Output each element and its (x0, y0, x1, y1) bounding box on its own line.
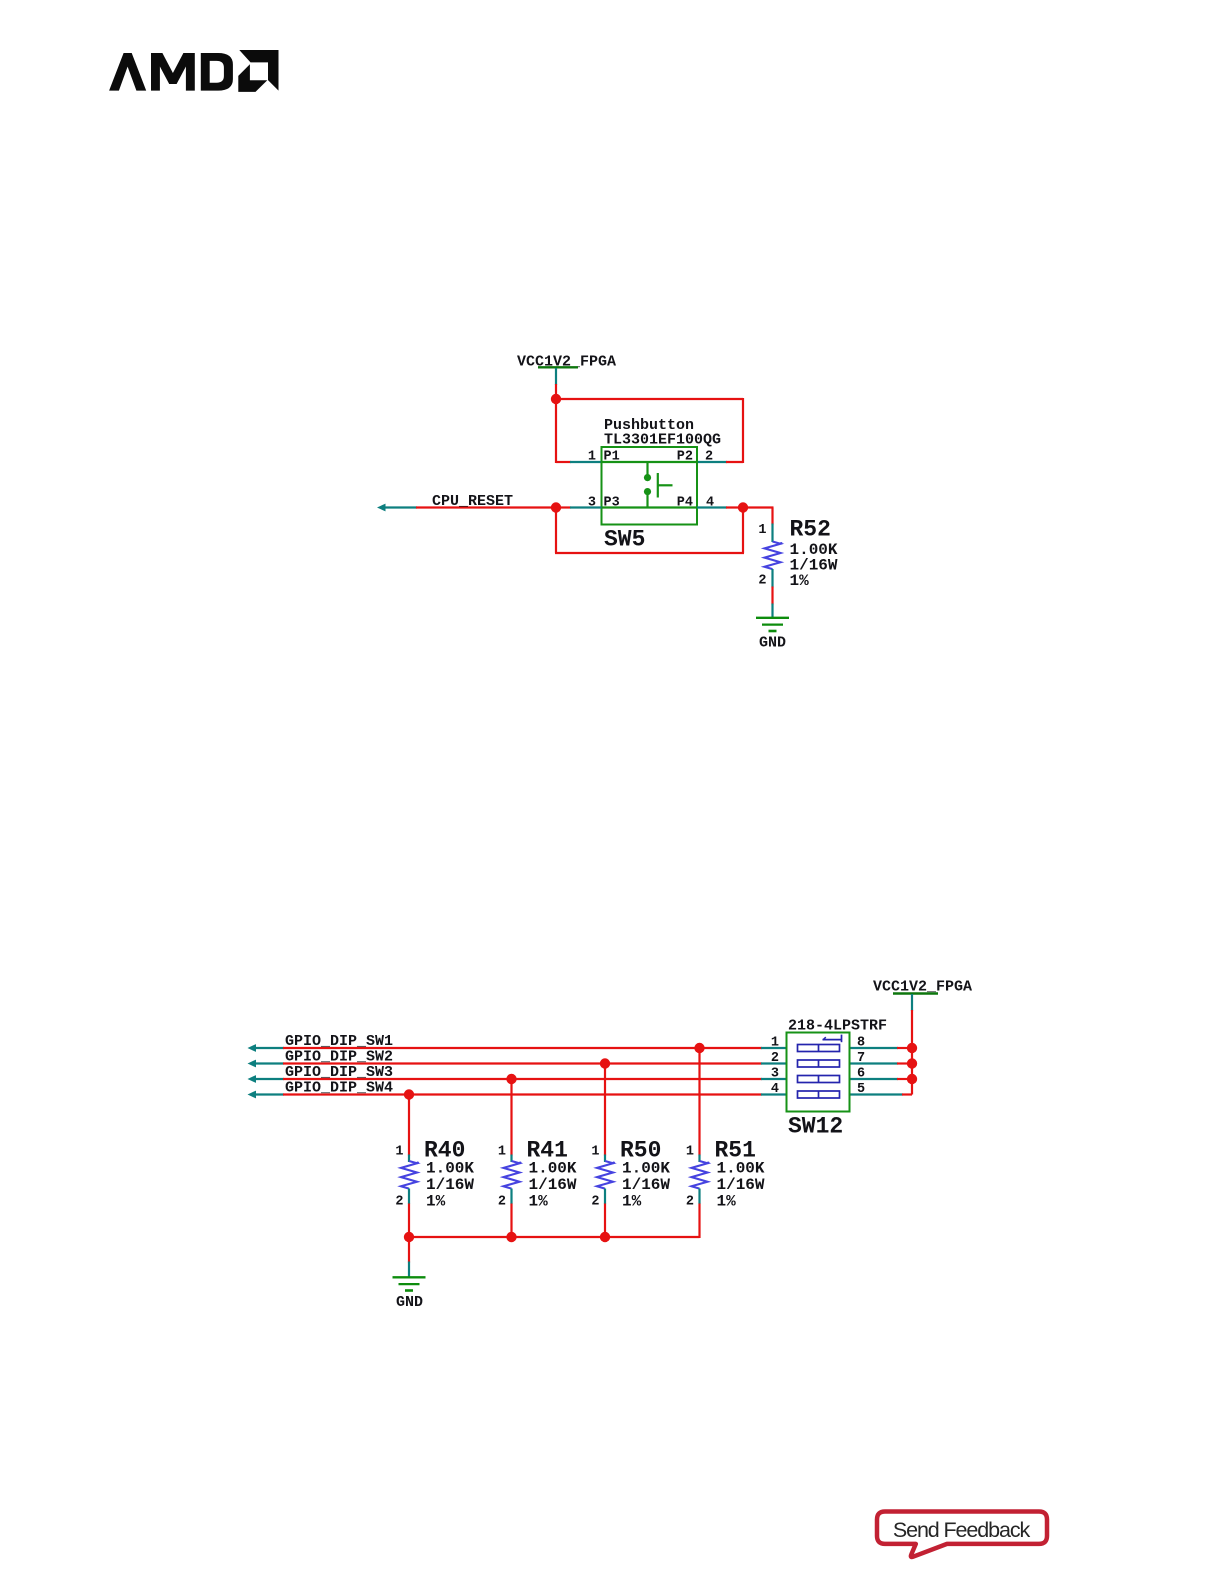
svg-text:1/16W: 1/16W (529, 1176, 577, 1194)
svg-text:2: 2 (705, 450, 713, 465)
svg-text:GND: GND (396, 1294, 423, 1311)
svg-text:2: 2 (686, 1195, 694, 1210)
svg-text:1: 1 (591, 1145, 599, 1160)
svg-text:1.00K: 1.00K (622, 1160, 670, 1178)
svg-text:2: 2 (498, 1195, 506, 1210)
svg-text:2: 2 (758, 574, 766, 589)
svg-text:1%: 1% (426, 1193, 446, 1211)
svg-text:1.00K: 1.00K (529, 1160, 577, 1178)
svg-text:3: 3 (771, 1066, 779, 1081)
svg-text:2: 2 (591, 1195, 599, 1210)
svg-text:TL3301EF100QG: TL3301EF100QG (604, 432, 721, 449)
svg-text:1%: 1% (790, 572, 810, 590)
svg-text:1/16W: 1/16W (622, 1176, 670, 1194)
svg-text:1: 1 (686, 1145, 694, 1160)
svg-text:3: 3 (588, 496, 596, 511)
svg-text:1: 1 (395, 1145, 403, 1160)
svg-text:GPIO_DIP_SW1: GPIO_DIP_SW1 (285, 1033, 393, 1050)
svg-text:SW5: SW5 (604, 527, 645, 553)
svg-text:4: 4 (706, 496, 714, 511)
svg-text:1%: 1% (529, 1193, 549, 1211)
svg-text:1: 1 (758, 523, 766, 538)
svg-text:P2: P2 (677, 450, 693, 465)
svg-text:SW12: SW12 (788, 1114, 843, 1140)
svg-text:1%: 1% (622, 1193, 642, 1211)
svg-text:P4: P4 (677, 496, 693, 511)
svg-text:R52: R52 (790, 517, 831, 543)
svg-text:1/16W: 1/16W (426, 1176, 474, 1194)
svg-text:GPIO_DIP_SW2: GPIO_DIP_SW2 (285, 1049, 393, 1066)
svg-text:GPIO_DIP_SW4: GPIO_DIP_SW4 (285, 1080, 393, 1097)
svg-text:2: 2 (395, 1195, 403, 1210)
svg-text:1.00K: 1.00K (426, 1160, 474, 1178)
svg-text:1: 1 (771, 1035, 779, 1050)
svg-text:1.00K: 1.00K (717, 1160, 765, 1178)
svg-text:1/16W: 1/16W (717, 1176, 765, 1194)
svg-text:P3: P3 (604, 496, 620, 511)
svg-text:1: 1 (498, 1145, 506, 1160)
svg-text:CPU_RESET: CPU_RESET (432, 493, 513, 510)
svg-text:Send Feedback: Send Feedback (893, 1518, 1031, 1542)
svg-text:1%: 1% (717, 1193, 737, 1211)
svg-text:GND: GND (759, 635, 786, 652)
svg-text:P1: P1 (604, 450, 620, 465)
svg-text:4: 4 (771, 1082, 779, 1097)
svg-text:2: 2 (771, 1051, 779, 1066)
svg-text:GPIO_DIP_SW3: GPIO_DIP_SW3 (285, 1064, 393, 1081)
svg-text:1: 1 (588, 450, 596, 465)
